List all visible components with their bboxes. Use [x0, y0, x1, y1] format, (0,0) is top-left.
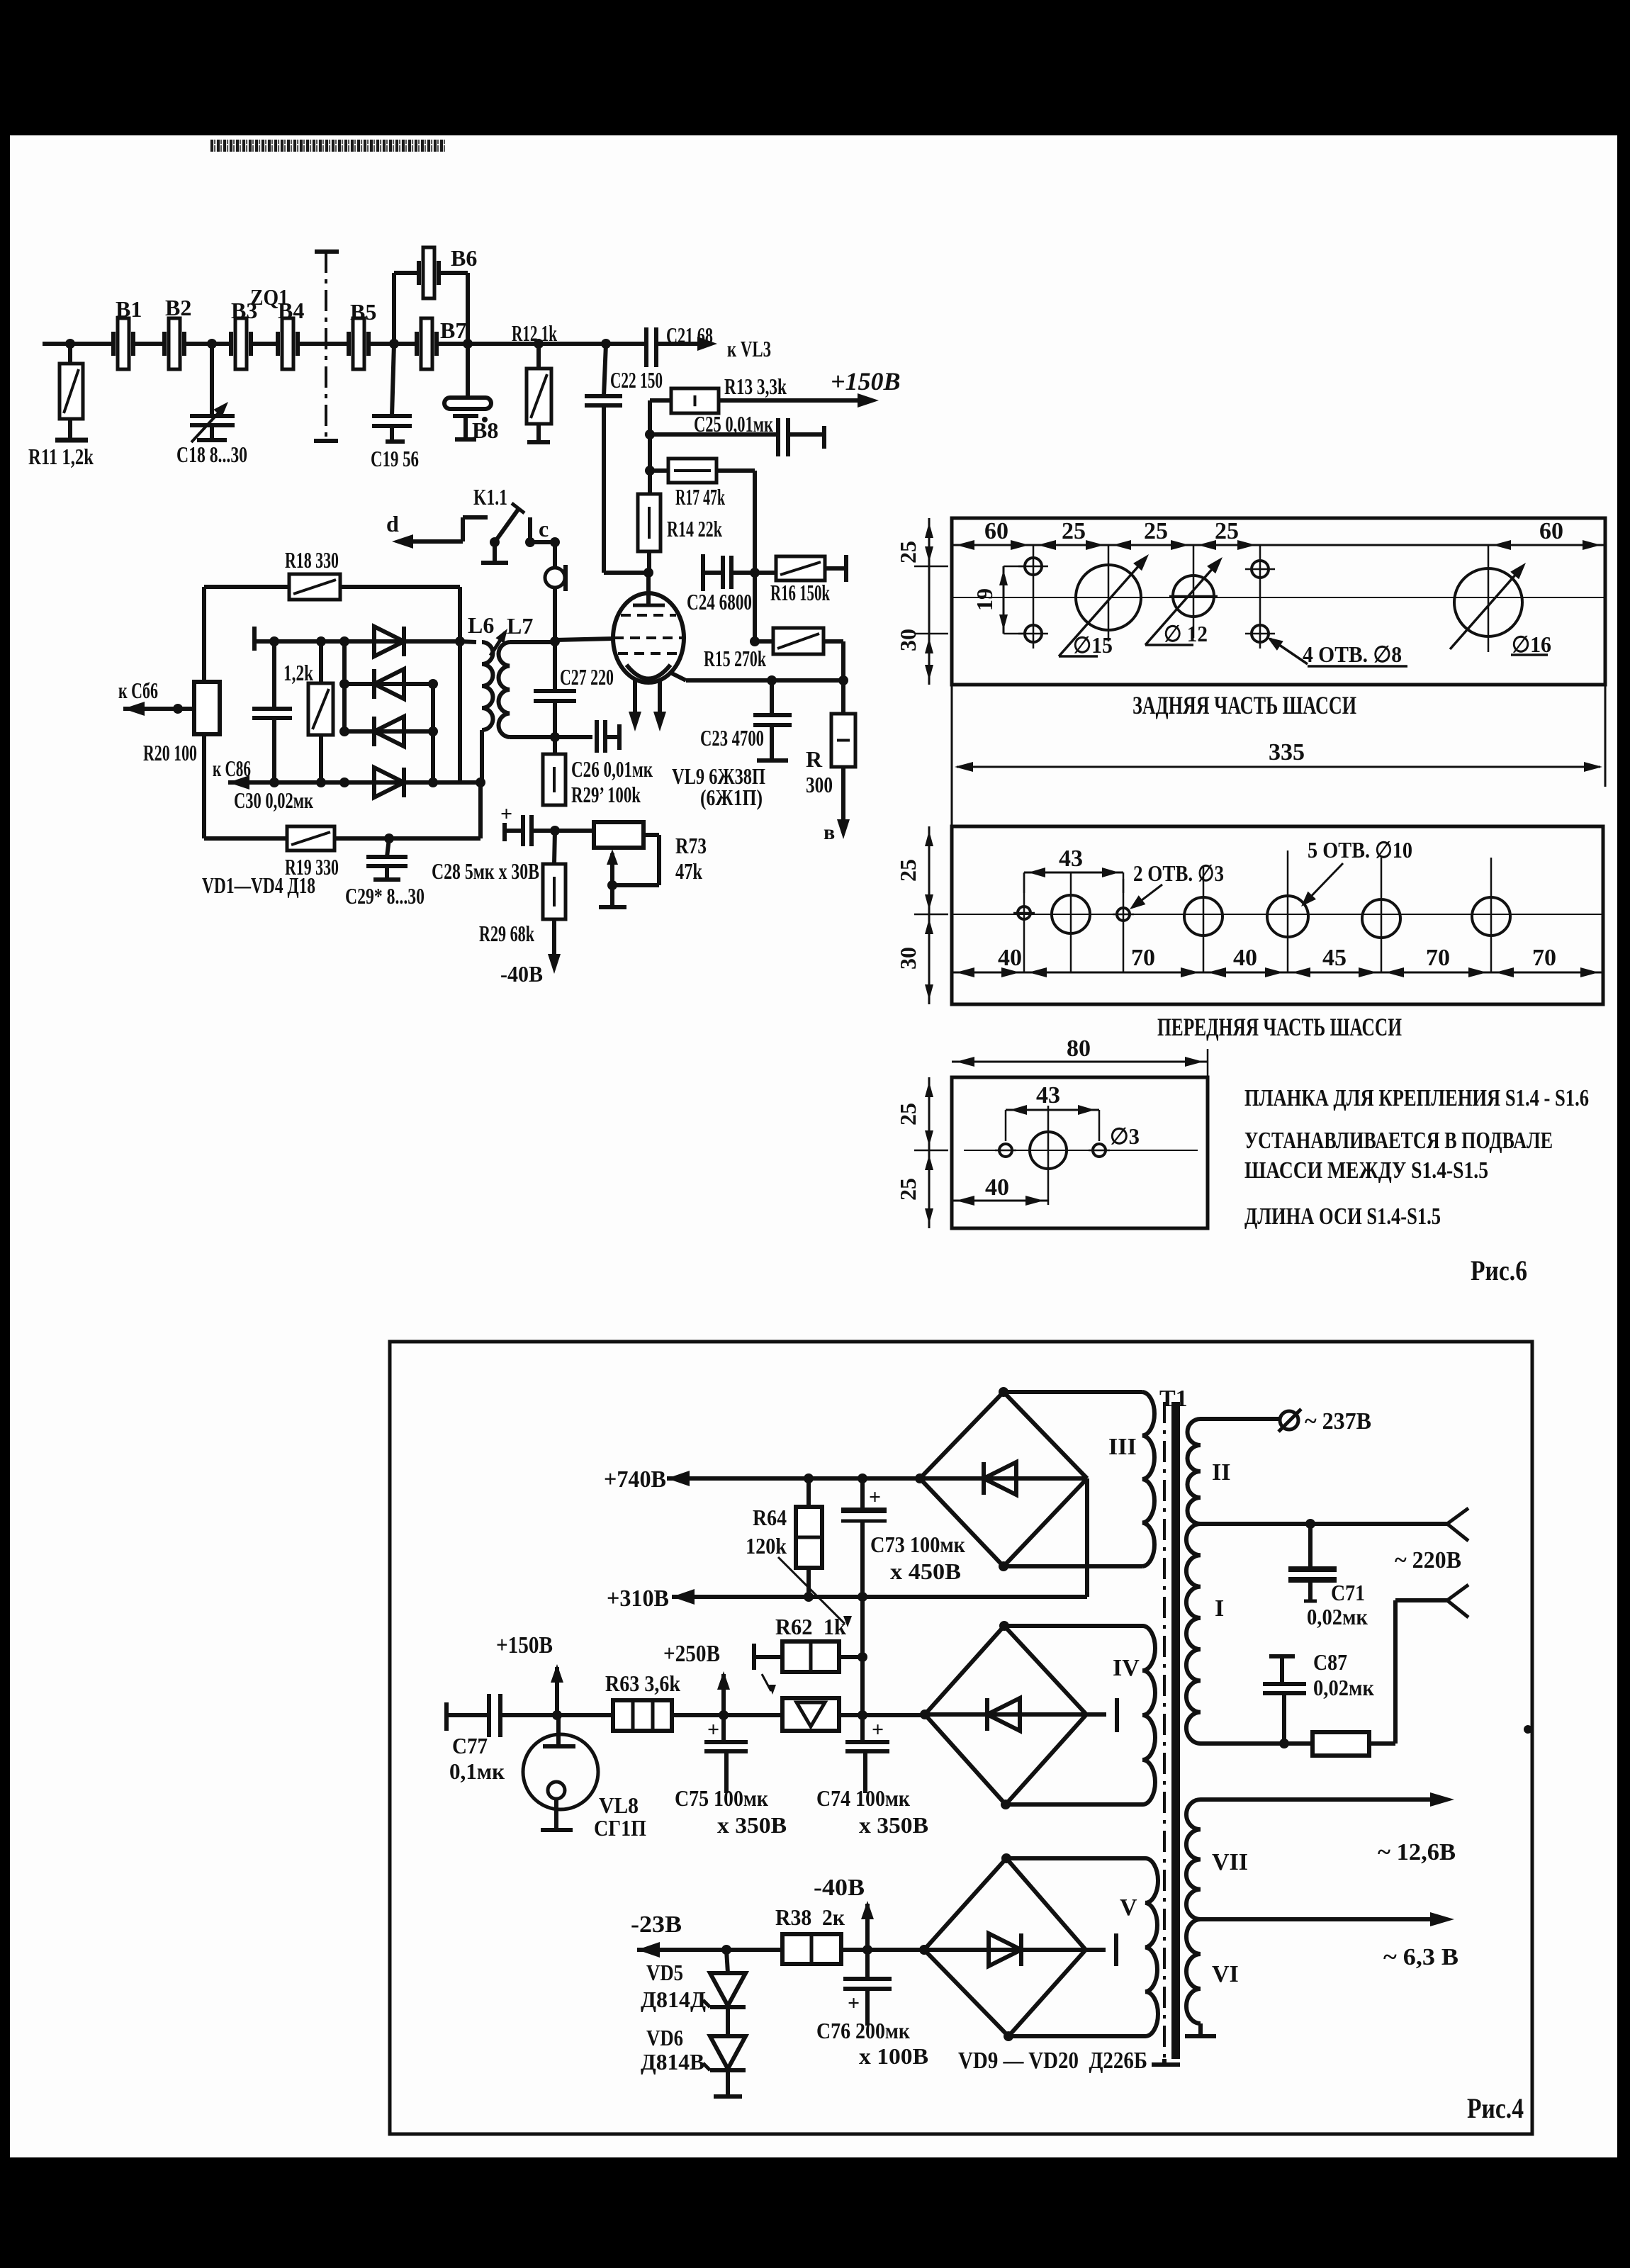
- wire -23V: [637, 1942, 782, 1958]
- svg-text:B5: B5: [350, 299, 376, 325]
- capacitor B8: [444, 344, 491, 439]
- crystal B1: [113, 318, 164, 369]
- front hole h7: [1472, 897, 1510, 936]
- svg-text:х 450В: х 450В: [890, 1559, 961, 1584]
- svg-text:VII: VII: [1212, 1849, 1248, 1875]
- label R12: [512, 320, 557, 346]
- node anode junction: [643, 568, 653, 578]
- node top2: [316, 636, 326, 646]
- fig4 frame: [390, 1342, 1532, 2134]
- node vd2a: [339, 679, 349, 689]
- label R14: [667, 516, 722, 541]
- svg-text:0,1мк: 0,1мк: [449, 1758, 505, 1784]
- rear dim 60a: [984, 518, 1008, 544]
- svg-text:IV: IV: [1113, 1655, 1140, 1681]
- label R64: [753, 1505, 787, 1530]
- node bridge3 left: [915, 1473, 925, 1483]
- svg-text:C18 8...30: C18 8...30: [176, 442, 247, 467]
- tube VL9 grid1: [621, 614, 676, 617]
- rear dim 25c: [1215, 518, 1239, 544]
- arrow +150V: [858, 393, 879, 408]
- label R62: [775, 1614, 846, 1639]
- node C28 junction: [550, 826, 560, 836]
- label L6: [468, 612, 494, 638]
- label R19: [285, 854, 339, 880]
- label v out: [824, 821, 835, 844]
- resistor R15: [755, 628, 843, 680]
- svg-text:R14 22k: R14 22k: [667, 516, 722, 541]
- label R38: [775, 1904, 845, 1930]
- label R73 value: [675, 858, 702, 884]
- resistor R63: [613, 1700, 782, 1731]
- rear dim 25b: [1144, 518, 1168, 544]
- dim 335 ext lines: [952, 685, 1605, 826]
- label L7: [507, 613, 533, 639]
- label +250V: [663, 1641, 720, 1667]
- svg-text:80: 80: [1067, 1035, 1091, 1062]
- svg-text:B8: B8: [472, 417, 498, 443]
- front col1: [1023, 873, 1025, 972]
- front dim 25 left: [895, 859, 921, 882]
- svg-text:ПЛАНКА ДЛЯ КРЕПЛЕНИЯ S1.4 - S1: ПЛАНКА ДЛЯ КРЕПЛЕНИЯ S1.4 - S1.6: [1244, 1085, 1589, 1111]
- core dash line: [1163, 1402, 1166, 2059]
- wire VD3 row: [344, 684, 433, 782]
- label d: [386, 511, 399, 537]
- label C30: [234, 787, 313, 813]
- planka plate: [952, 1077, 1208, 1228]
- connector 220 B: [1447, 1585, 1468, 1617]
- node bot4: [428, 777, 438, 787]
- label otv8: [1303, 641, 1402, 667]
- planka hole s2: [1089, 1144, 1110, 1157]
- front dim 70b: [1426, 945, 1450, 971]
- svg-text:C87: C87: [1313, 1649, 1347, 1675]
- label C71: [1331, 1580, 1365, 1605]
- wire 220V A: [1201, 1522, 1447, 1526]
- svg-text:B6: B6: [451, 245, 477, 271]
- label VL8 type: [594, 1815, 646, 1841]
- label B3: [231, 298, 257, 323]
- svg-text:L7: L7: [507, 613, 533, 639]
- label VL9: [672, 763, 765, 789]
- label C76 value: [859, 2043, 928, 2069]
- label C87 value: [1313, 1675, 1375, 1700]
- capacitor C25: [650, 418, 824, 456]
- svg-text:+250В: +250В: [663, 1641, 720, 1667]
- svg-text:R15 270k: R15 270k: [704, 646, 766, 671]
- svg-text:R13 3,3k: R13 3,3k: [724, 374, 787, 399]
- tube VL9 cathode lead: [669, 672, 843, 680]
- crystal B7: [417, 318, 524, 369]
- planka dim43: [1006, 1105, 1099, 1141]
- label C87: [1313, 1649, 1347, 1675]
- rear hole a1: [1018, 558, 1048, 575]
- bridge V frame: [924, 1858, 1086, 2036]
- svg-text:47k: 47k: [675, 858, 702, 884]
- label II: [1212, 1459, 1230, 1486]
- svg-text:C25 0,01мк: C25 0,01мк: [694, 411, 773, 437]
- front dim 40b: [1233, 945, 1257, 971]
- label R29: [479, 921, 534, 946]
- rear left dim line: [928, 518, 931, 685]
- svg-text:VD5: VD5: [646, 1960, 683, 1985]
- winding VII coil: [1186, 1800, 1201, 1919]
- svg-text:ZQ1: ZQ1: [250, 284, 288, 310]
- front hole h2: [1052, 895, 1090, 933]
- front hole h5: [1267, 896, 1308, 937]
- wire R13 vertical: [648, 400, 652, 494]
- svg-text:+: +: [500, 802, 512, 826]
- rear hole a2: [1018, 625, 1048, 642]
- svg-text:40: 40: [998, 945, 1022, 971]
- label k C86: [213, 756, 251, 781]
- label VI: [1212, 1961, 1239, 1987]
- label 5otv10: [1308, 837, 1412, 863]
- label C21: [666, 322, 713, 348]
- bridge III frame: [920, 1392, 1087, 1566]
- svg-text:ЗАДНЯЯ ЧАСТЬ ШАССИ: ЗАДНЯЯ ЧАСТЬ ШАССИ: [1132, 691, 1356, 719]
- wire diode bottom: [228, 780, 480, 785]
- diode VD2: [374, 669, 404, 699]
- capacitor C76: [843, 1950, 892, 2026]
- label VD1-VD4: [202, 872, 315, 898]
- svg-text:30: 30: [895, 947, 921, 970]
- node bot1: [269, 777, 279, 787]
- svg-text:х 350В: х 350В: [859, 1812, 928, 1838]
- rear dim19 line: [999, 566, 1025, 634]
- planka dim40: [952, 1196, 1048, 1206]
- tube heater lead 2: [653, 680, 666, 731]
- label VD5: [646, 1960, 683, 1985]
- wire grid to tube: [555, 639, 614, 640]
- arrow +150V ps: [551, 1664, 563, 1715]
- node R15 junction: [750, 636, 760, 646]
- label R18: [285, 547, 339, 573]
- svg-text:70: 70: [1426, 945, 1450, 971]
- svg-text:Рис.6: Рис.6: [1471, 1254, 1527, 1286]
- svg-text:335: 335: [1269, 739, 1305, 765]
- svg-text:+: +: [872, 1718, 884, 1741]
- planka dim80 line: [952, 1049, 1208, 1077]
- svg-text:+150В: +150В: [831, 367, 901, 395]
- rear chassis plate: [952, 518, 1605, 685]
- wire diode top: [254, 627, 460, 651]
- label C77 value: [449, 1758, 505, 1784]
- ZQ1 case line: [314, 252, 339, 441]
- svg-text:УСТАНАВЛИВАЕТСЯ В ПОДВАЛЕ: УСТАНАВЛИВАЕТСЯ В ПОДВАЛЕ: [1244, 1128, 1553, 1154]
- svg-text:R11 1,2k: R11 1,2k: [28, 444, 94, 469]
- node b5 top: [1001, 1853, 1011, 1863]
- front dim 45: [1322, 945, 1347, 971]
- tube VL9 grid2: [614, 636, 683, 639]
- winding IV coil: [1142, 1626, 1155, 1804]
- label +150V ps: [496, 1632, 553, 1658]
- leader d15: [1059, 554, 1149, 656]
- svg-text:25: 25: [1062, 518, 1086, 544]
- wire 220V B: [1201, 1741, 1313, 1746]
- label C25: [694, 411, 773, 437]
- svg-text:-23В: -23В: [631, 1911, 682, 1938]
- svg-text:C23 4700: C23 4700: [700, 725, 764, 751]
- svg-text:0,02мк: 0,02мк: [1307, 1604, 1368, 1629]
- node input junction: [65, 339, 75, 349]
- svg-text:300: 300: [806, 772, 833, 797]
- rear hole d12: [1169, 576, 1218, 617]
- svg-text:к C86: к C86: [213, 756, 251, 781]
- capacitor C18 trimmer: [190, 344, 235, 442]
- svg-text:C77: C77: [452, 1733, 488, 1758]
- svg-text:K1.1: K1.1: [473, 484, 507, 510]
- svg-text:Д814В: Д814В: [641, 2049, 704, 2075]
- wire c to jack: [530, 537, 560, 568]
- label C76: [816, 2018, 910, 2043]
- label -40V: [500, 961, 543, 987]
- rear col1: [1033, 545, 1035, 649]
- svg-text:(6Ж1П): (6Ж1П): [700, 785, 763, 810]
- svg-text:70: 70: [1131, 945, 1155, 971]
- node cathode C23: [767, 675, 777, 685]
- svg-text:R63 3,6k: R63 3,6k: [605, 1671, 680, 1696]
- svg-text:-40В: -40В: [500, 961, 543, 987]
- label ZQ1: [250, 284, 288, 310]
- label IV: [1113, 1655, 1140, 1681]
- svg-text:B7: B7: [440, 318, 466, 343]
- label B7: [440, 318, 466, 343]
- resistor R14: [638, 494, 661, 573]
- crystal B2: [164, 318, 231, 369]
- label planka 40: [985, 1174, 1009, 1201]
- label k VL3: [727, 336, 771, 361]
- potentiometer R73: [555, 822, 659, 890]
- svg-text:70: 70: [1532, 945, 1556, 971]
- label R15: [704, 646, 766, 671]
- leader R64 R62: [778, 1557, 852, 1627]
- svg-text:R20 100: R20 100: [143, 740, 197, 765]
- svg-text:40: 40: [1233, 945, 1257, 971]
- wire C73 down: [860, 1597, 865, 1715]
- svg-text:R29’ 100k: R29’ 100k: [571, 782, 641, 807]
- svg-text:II: II: [1212, 1459, 1230, 1486]
- label 6.3V: [1383, 1944, 1458, 1970]
- capacitor C21: [646, 327, 709, 367]
- svg-text:+: +: [869, 1486, 881, 1509]
- resistor R12: [527, 344, 551, 442]
- zener VD6: [703, 2007, 746, 2070]
- planka hole s1: [995, 1144, 1016, 1157]
- resistor R300: [831, 680, 855, 822]
- node C71 junction: [1305, 1519, 1315, 1529]
- svg-text:25: 25: [895, 1103, 921, 1125]
- label C75 value: [717, 1812, 787, 1838]
- tube heater lead 1: [629, 680, 641, 731]
- label C73: [870, 1532, 965, 1557]
- label C23: [700, 725, 764, 751]
- wire 12.6V: [1201, 1792, 1454, 1807]
- trimmer tick L6L7: [490, 629, 507, 656]
- node top right: [455, 636, 465, 646]
- svg-text:C30 0,02мк: C30 0,02мк: [234, 787, 313, 813]
- wire jack down: [553, 588, 557, 641]
- svg-text:+: +: [848, 1992, 860, 2015]
- label VL9b: [700, 785, 763, 810]
- svg-text:R17 47k: R17 47k: [675, 484, 725, 510]
- svg-text:СГ1П: СГ1П: [594, 1815, 646, 1841]
- label K1.1: [473, 484, 507, 510]
- leader 5otv10: [1301, 863, 1343, 906]
- wire 6.3V: [1201, 1912, 1454, 1926]
- capacitor C23: [753, 680, 792, 760]
- tube VL8 cathode: [541, 1782, 573, 1830]
- svg-text:25: 25: [1144, 518, 1168, 544]
- node R12 junction: [534, 339, 544, 349]
- svg-text:ДЛИНА ОСИ S1.4-S1.5: ДЛИНА ОСИ S1.4-S1.5: [1244, 1203, 1441, 1230]
- tube VL8 envelope: [523, 1734, 598, 1809]
- crystal B4: [278, 318, 316, 369]
- resistor R13: [650, 388, 719, 413]
- resistor R64: [796, 1478, 822, 1597]
- label B8: [472, 417, 498, 443]
- capacitor C75: [704, 1715, 748, 1793]
- resistor R19: [204, 826, 480, 850]
- switch K1.1 common: [481, 537, 508, 563]
- svg-text:III: III: [1108, 1434, 1137, 1460]
- label T1: [1159, 1386, 1188, 1412]
- crystal B6: [419, 247, 439, 298]
- resistor R62: [754, 1641, 862, 1672]
- svg-text:∅3: ∅3: [1110, 1123, 1140, 1149]
- svg-text:R64: R64: [753, 1505, 787, 1530]
- node C29 junction: [384, 833, 394, 843]
- planka hole big: [1030, 1132, 1067, 1169]
- arrow d: [392, 534, 413, 549]
- wire input line: [43, 342, 113, 346]
- resistor R38: [782, 1934, 924, 1964]
- label B6: [451, 245, 477, 271]
- label R73: [675, 833, 707, 858]
- capacitor C29: [366, 838, 407, 880]
- planka dim 25a: [895, 1103, 921, 1125]
- node 310 b: [858, 1592, 867, 1602]
- label VL8: [599, 1792, 639, 1818]
- wire to C21: [524, 342, 646, 346]
- svg-text:C73 100мк: C73 100мк: [870, 1532, 965, 1557]
- winding VI ground: [1185, 2023, 1216, 2036]
- wire B4 to B5: [316, 342, 349, 346]
- inductor L6: [460, 641, 493, 782]
- svg-text:~ 6,3 В: ~ 6,3 В: [1383, 1944, 1458, 1970]
- arrow -40V: [548, 954, 561, 974]
- label 80: [1067, 1035, 1091, 1062]
- front col4: [1203, 866, 1205, 972]
- leader 2otv3: [1130, 885, 1162, 909]
- bridge V right terminal: [1086, 1933, 1116, 1966]
- label planka text4: [1244, 1203, 1441, 1230]
- svg-text:60: 60: [984, 518, 1008, 544]
- node 740 a: [804, 1473, 814, 1483]
- svg-text:I: I: [1215, 1595, 1224, 1622]
- winding III wires: [1004, 1392, 1142, 1566]
- svg-text:43: 43: [1036, 1082, 1060, 1108]
- label planka text2: [1244, 1128, 1553, 1154]
- planka centerline: [964, 1150, 1198, 1151]
- svg-text:25: 25: [1215, 518, 1239, 544]
- label 335: [1269, 739, 1305, 765]
- label 2otv3: [1133, 860, 1224, 886]
- node bot3: [339, 777, 349, 787]
- label R16: [770, 580, 830, 605]
- arrow -40V ps: [861, 1901, 874, 1950]
- label VD6: [646, 2025, 683, 2050]
- svg-text:25: 25: [895, 1178, 921, 1201]
- label R29p: [571, 782, 641, 807]
- rear dim 60b: [1539, 518, 1563, 544]
- label Fig4: [1467, 2092, 1524, 2124]
- label R64 value: [746, 1533, 787, 1559]
- rear hole a4: [1245, 625, 1275, 642]
- svg-text:R16 150k: R16 150k: [770, 580, 830, 605]
- node C19 junction: [389, 339, 399, 349]
- wire +740V: [667, 1471, 920, 1486]
- svg-text:+310В: +310В: [607, 1585, 669, 1612]
- svg-text:в: в: [824, 821, 835, 844]
- label rear chassis: [1132, 691, 1356, 719]
- leader R62 low: [762, 1674, 776, 1695]
- front dim 70c: [1532, 945, 1556, 971]
- front dim43 line: [1024, 868, 1123, 893]
- svg-text:х 100В: х 100В: [859, 2043, 928, 2069]
- label C74: [816, 1785, 910, 1811]
- leader otv8: [1267, 637, 1407, 666]
- capacitor C73: [841, 1478, 887, 1597]
- svg-text:~ 237В: ~ 237В: [1305, 1408, 1371, 1435]
- svg-text:VD1—VD4 Д18: VD1—VD4 Д18: [202, 872, 315, 898]
- svg-text:45: 45: [1322, 945, 1347, 971]
- label -40V ps: [814, 1875, 865, 1901]
- label C24: [687, 589, 752, 614]
- label R17: [675, 484, 725, 510]
- zener ground: [714, 2070, 742, 2096]
- front col5: [1287, 850, 1289, 972]
- rear centerline: [952, 597, 1605, 598]
- node VD5 junction: [721, 1945, 731, 1955]
- label R300a: [806, 746, 823, 772]
- label III: [1108, 1434, 1137, 1460]
- svg-text:∅ 12: ∅ 12: [1164, 621, 1208, 646]
- frame speck: [1524, 1725, 1532, 1734]
- front dim 70a: [1131, 945, 1155, 971]
- rear left ticks: [914, 518, 952, 680]
- node b5 bottom: [1004, 2031, 1013, 2041]
- label Fig6: [1471, 1254, 1527, 1286]
- svg-text:R29 68k: R29 68k: [479, 921, 534, 946]
- wire R16 node down: [753, 573, 757, 641]
- label R63: [605, 1671, 680, 1696]
- crystal B5: [349, 318, 417, 369]
- label V: [1120, 1894, 1137, 1921]
- winding V coil: [1145, 1858, 1158, 2036]
- svg-text:~ 220В: ~ 220В: [1395, 1547, 1461, 1573]
- node vd3b: [428, 726, 438, 736]
- core bar: [1171, 1402, 1180, 2059]
- label +150V: [831, 367, 901, 395]
- front dim 30 left: [895, 947, 921, 970]
- svg-text:к Cб6: к Cб6: [118, 678, 158, 703]
- winding IV wires: [1004, 1626, 1142, 1804]
- label 12.6V: [1378, 1839, 1456, 1865]
- tube VL9 cathode: [626, 665, 670, 679]
- node top3: [339, 636, 349, 646]
- node cathode R: [838, 675, 848, 685]
